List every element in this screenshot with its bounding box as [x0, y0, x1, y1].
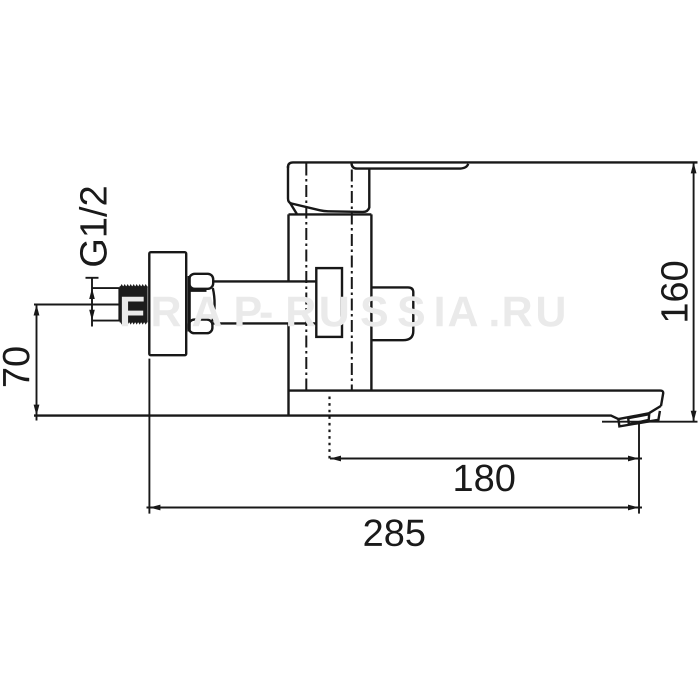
dim text 160 — [661, 262, 688, 321]
spout underside slant to aerator — [618, 406, 661, 419]
hex nut left edge — [188, 276, 191, 332]
arrow 160 down — [691, 411, 697, 422]
cartridge inner rectangle — [316, 268, 342, 337]
aerator outline — [618, 411, 660, 427]
centerline A (cartridge axis) — [305, 164, 307, 391]
arrow 285 right — [628, 505, 639, 511]
flange extension line down — [148, 359, 150, 514]
handle cap outline — [288, 166, 369, 212]
hex nut right curved face — [212, 288, 214, 322]
shower outlet stub — [371, 287, 413, 340]
160 dim line — [693, 162, 695, 421]
spout nozzle extension line down — [638, 422, 640, 514]
dim text 70 — [3, 347, 30, 386]
180 dim line — [330, 458, 642, 460]
eccentric pipe bottom edge — [213, 322, 316, 324]
dim text G1/2 — [79, 187, 107, 266]
centerline B (handle axis) — [351, 170, 353, 391]
arrow G1/2 down — [89, 310, 95, 321]
body left edge upper segment — [287, 214, 289, 281]
arrow 70 down — [34, 405, 40, 416]
cap corner diagonal tick — [290, 203, 297, 214]
hex nut face shadow wedge — [190, 289, 207, 292]
watermark FRAP-RUSSIA.RU — [122, 296, 564, 326]
wall flange (escutcheon) — [149, 252, 186, 355]
threaded pipe left end cap — [118, 288, 120, 321]
arrow 285 left — [149, 505, 160, 511]
285 dim line — [147, 507, 643, 509]
spout bottom edge / wall reference long line — [34, 416, 618, 420]
centerlines dash-dot — [306, 164, 352, 391]
aerator inner rectangle — [628, 414, 649, 424]
body right edge — [370, 214, 372, 390]
180 dotted extension line — [328, 397, 330, 462]
G1/2 top tick — [92, 287, 120, 289]
spout top edge and right tip — [289, 391, 664, 406]
arrow 70 up — [34, 305, 40, 316]
160 bottom extension line — [602, 421, 698, 423]
body left edge lower segment — [287, 323, 289, 415]
arrow G1/2 up — [89, 288, 95, 299]
pipe centerline / 70 top extension — [34, 304, 120, 306]
G1/2 dim vertical line — [91, 278, 93, 327]
hex nut bottom face pill — [189, 320, 213, 334]
arrow 180 left — [330, 456, 341, 462]
dim text 285 — [365, 519, 425, 546]
threaded pipe dark block — [120, 286, 148, 322]
handle lever top edge + 160 top extension line — [288, 162, 698, 168]
70 dim line — [36, 305, 38, 421]
arrow 160 up — [691, 162, 697, 173]
arrow 180 right — [628, 456, 639, 462]
thread crest serration top — [120, 285, 147, 288]
dim text 180 — [455, 464, 514, 491]
G1/2 bottom tick — [92, 320, 120, 322]
body top edge — [289, 213, 372, 215]
hex nut top face pill — [189, 274, 213, 289]
handle lever bottom edge with rounded tip — [352, 164, 469, 169]
eccentric pipe top edge — [213, 280, 316, 282]
thread crest serration bottom — [120, 321, 147, 324]
G1/2 T-cap — [86, 277, 99, 279]
